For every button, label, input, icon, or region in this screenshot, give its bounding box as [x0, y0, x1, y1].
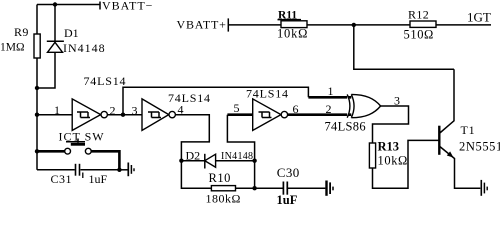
capacitor C30: [283, 182, 287, 195]
svg-text:R9: R9: [14, 25, 29, 39]
wire C31 row left: [37, 169, 75, 171]
svg-text:5: 5: [234, 101, 240, 115]
svg-text:D2: D2: [186, 149, 201, 163]
wire pin2 to pin3: [108, 114, 143, 116]
svg-text:1uF: 1uF: [277, 193, 298, 204]
diode D2: [205, 154, 216, 169]
wire VBATT+ to R11: [228, 24, 281, 26]
ground middle: [327, 181, 334, 196]
svg-text:2: 2: [326, 102, 332, 116]
resistor R11: [281, 21, 307, 28]
transistor T1: [439, 69, 480, 188]
junction dot D1 bottom: [35, 86, 39, 90]
wire R11 to R12: [307, 24, 410, 26]
wire D2 right node to R10 node: [254, 161, 256, 189]
svg-text:3: 3: [132, 104, 138, 118]
diode D1: [47, 41, 64, 52]
resistor R13: [369, 143, 375, 168]
junction dot pin1 node: [35, 113, 39, 117]
wire R10 rail: [181, 161, 254, 189]
svg-text:1: 1: [54, 103, 60, 117]
wire pin6 to XOR input 2 thick: [288, 113, 353, 116]
svg-text:1GT: 1GT: [467, 10, 491, 25]
xor gate U2 74LS86: [347, 94, 380, 117]
capacitor C31: [76, 164, 83, 178]
svg-text:C30: C30: [277, 165, 300, 180]
junction dot collector rail: [352, 23, 356, 27]
wire pin4 down to D2 node: [176, 115, 210, 161]
junction dot D2 right node: [252, 159, 256, 163]
svg-text:10kΩ: 10kΩ: [378, 154, 408, 168]
wire R9 bottom lead down to C31 row: [36, 58, 38, 170]
wire C31 to ground junction: [81, 169, 120, 171]
junction dot R10 right node: [252, 186, 256, 190]
op-amp U1A inverter 74LS14: [72, 99, 107, 130]
wire R13 bottom to base: [373, 140, 440, 188]
wire pin5 step down: [227, 115, 254, 161]
junction dot D2 left node: [179, 159, 183, 163]
svg-text:R13: R13: [378, 140, 400, 154]
junction dot switch left: [35, 149, 39, 153]
svg-text:180kΩ: 180kΩ: [206, 192, 241, 205]
svg-text:1uF: 1uF: [89, 172, 108, 186]
wire feedback to XOR input1: [123, 87, 308, 114]
wire pin1: [37, 114, 72, 116]
svg-text:IN4148: IN4148: [221, 151, 253, 162]
svg-text:T1: T1: [461, 123, 476, 137]
resistor R9: [34, 34, 40, 58]
wire R12 to 1GT: [436, 24, 491, 26]
svg-text:74LS14: 74LS14: [168, 91, 211, 105]
wire collector rail from R11 junction: [354, 25, 454, 69]
svg-text:VBATT+: VBATT+: [177, 18, 227, 32]
svg-text:1MΩ: 1MΩ: [0, 42, 25, 54]
switch ICT_SW pushbutton: [37, 139, 119, 170]
wire C30 to ground: [288, 187, 325, 189]
underline R11: [278, 19, 302, 21]
wire to left ground: [119, 169, 128, 171]
svg-text:IN4148: IN4148: [63, 41, 106, 55]
resistor R10: [211, 186, 235, 191]
ground right of emitter: [481, 180, 487, 196]
svg-text:510Ω: 510Ω: [404, 28, 434, 42]
junction dot pin2 node: [121, 113, 125, 117]
wire XOR input 1 thick: [308, 96, 352, 99]
svg-text:74LS86: 74LS86: [325, 120, 366, 134]
svg-text:1: 1: [328, 84, 334, 98]
underline ICT_SW: [66, 141, 85, 143]
wire D1 top lead: [54, 5, 56, 42]
op-amp U1B inverter 74LS14: [142, 99, 175, 130]
wire D2 rail: [181, 160, 254, 162]
svg-text:R12: R12: [408, 8, 429, 22]
svg-text:R10: R10: [209, 171, 231, 185]
svg-text:10kΩ: 10kΩ: [277, 27, 308, 41]
junction dot D1 top: [53, 2, 57, 6]
svg-text:C31: C31: [51, 172, 73, 186]
wire R9 top lead: [36, 5, 38, 35]
wire XOR output to R13: [373, 106, 409, 143]
ground left: [128, 163, 134, 177]
node VBATT- tag tick: [99, 2, 101, 10]
svg-text:D1: D1: [64, 26, 79, 40]
wire pin5 thick: [227, 113, 252, 116]
node VBATT+ tag tick: [227, 18, 229, 31]
svg-text:VBATT−: VBATT−: [102, 0, 153, 13]
junction dot C31 ground node: [117, 168, 121, 172]
wire D1 bottom lead: [37, 52, 55, 88]
resistor R12: [410, 21, 436, 27]
svg-text:74LS14: 74LS14: [84, 74, 127, 88]
svg-text:2N5551: 2N5551: [459, 140, 500, 154]
op-amp U1C inverter 74LS14: [253, 99, 288, 130]
wire to C30: [255, 187, 283, 189]
wire VBATT- top rail: [37, 4, 100, 6]
